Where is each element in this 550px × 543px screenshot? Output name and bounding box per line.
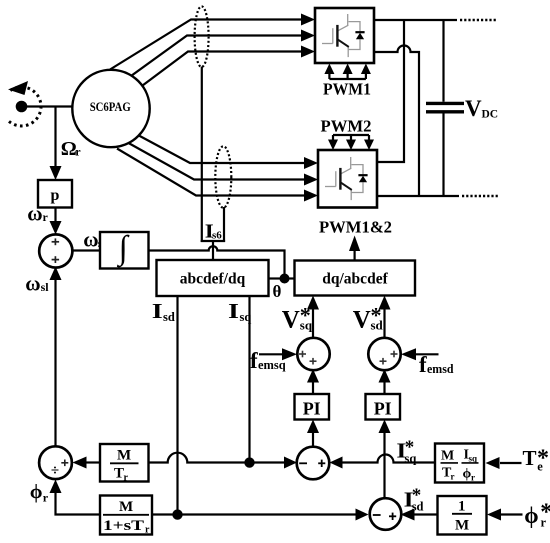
wire PI q to S2 [307, 369, 319, 394]
DC+ top rail [374, 19, 457, 21]
svg-text:SC6PAG: SC6PAG [90, 99, 131, 114]
wire phase C top set [135, 46, 316, 92]
Isq* reference wire with hop [330, 455, 436, 469]
Vsd* reference wire [379, 296, 391, 339]
wire phase C bottom set [117, 149, 318, 202]
svg-text:T: T [523, 446, 537, 470]
wire PI d to S3 [379, 369, 391, 394]
DC- rail dotted continuation [462, 195, 498, 198]
svg-text:PWM2: PWM2 [321, 117, 372, 136]
svg-text:ϕ: ϕ [30, 481, 43, 503]
Te* input [486, 457, 522, 469]
svg-text:I: I [152, 299, 163, 323]
wire theta to abcdef/dq [269, 277, 285, 279]
svg-text:1: 1 [458, 499, 466, 515]
wire S5 to PI d [379, 420, 391, 499]
Isd measured wire [176, 296, 178, 515]
svg-text:emsd: emsd [427, 361, 454, 376]
wire Isq to S4 and M/Tr with hop [149, 453, 250, 463]
svg-text:sl: sl [41, 280, 50, 294]
svg-text:θ: θ [273, 282, 282, 301]
DC link capacitor C [426, 20, 464, 196]
wire bottom converter positive to DC+ [377, 20, 404, 162]
wire dq/abcdef to PWM [349, 236, 360, 261]
wire phase B top set [124, 30, 315, 82]
svg-text:r: r [541, 516, 547, 530]
svg-text:r: r [43, 210, 49, 224]
flux to current block 1/M [438, 496, 487, 535]
svg-text:PWM1&2: PWM1&2 [319, 218, 392, 237]
svg-text:emsq: emsq [258, 357, 286, 372]
summing junction S4 q-axis current [297, 447, 330, 480]
svg-text:PI: PI [303, 399, 321, 419]
svg-text:DC: DC [482, 109, 499, 121]
svg-text:PWM1: PWM1 [323, 80, 371, 99]
PI controller d-axis [366, 394, 401, 420]
M/(1+sTr) block [100, 496, 152, 535]
top cable ellipse (dotted) [195, 6, 209, 67]
svg-text:M: M [441, 449, 454, 464]
Isq measured wire [248, 296, 250, 463]
svg-text:r: r [451, 472, 455, 482]
omega_r wire [50, 208, 62, 235]
svg-text:ω: ω [25, 271, 40, 295]
svg-text:r: r [43, 491, 49, 505]
wire theta to dq/abcdef [285, 277, 295, 279]
wire phase A bottom set [137, 135, 318, 170]
divider junction [39, 446, 72, 479]
svg-text:ω: ω [83, 227, 98, 251]
DC- bottom rail [377, 195, 459, 197]
svg-text:M: M [455, 518, 469, 534]
phi_r wire into divider [50, 480, 101, 515]
theta wire with hop over Is6 line [149, 246, 285, 278]
current sensor wire from bottom set [223, 207, 225, 242]
current sensor wire from top set [201, 67, 203, 243]
svg-text:ϕ: ϕ [524, 503, 538, 528]
svg-text:T: T [114, 466, 124, 482]
summing junction S5 d-axis current [370, 498, 402, 530]
svg-text:f: f [419, 352, 427, 377]
node Isq junction dot [244, 457, 254, 467]
PWM1 gating arrows [324, 64, 371, 80]
shaft end dot [16, 101, 28, 113]
svg-text:sq: sq [240, 310, 252, 324]
torque to current block M/Tr Isq/phir [435, 444, 484, 483]
svg-text:÷: ÷ [51, 463, 59, 479]
abcdef/dq transform block [157, 260, 269, 296]
svg-text:dq/abcdef: dq/abcdef [322, 271, 388, 288]
Vsq* reference wire [307, 296, 319, 339]
svg-text:sd: sd [371, 318, 384, 333]
rotation arrow [8, 81, 28, 95]
M/Tr block [100, 444, 149, 482]
wire M/Tr to divider [73, 457, 101, 469]
bottom cable ellipse (dotted) [215, 146, 231, 207]
wire phase A top set [110, 14, 315, 70]
node Isd junction dot [172, 509, 182, 519]
Is6 measured current wire into abcdef/dq [212, 241, 214, 260]
shaft wire [22, 105, 74, 107]
wire phase B bottom set [129, 143, 319, 186]
svg-text:V: V [282, 307, 300, 334]
svg-text:e: e [537, 460, 543, 474]
svg-text:I: I [228, 299, 239, 323]
summing junction S3 d-axis voltage [368, 338, 400, 370]
wire Isd to S5 [152, 513, 178, 515]
svg-text:V: V [465, 96, 482, 121]
PWM2 gating arrows [328, 135, 374, 150]
wire top converter negative with hop [374, 46, 419, 197]
bottom converter box U2 [318, 150, 377, 208]
svg-text:f: f [250, 348, 258, 373]
integrator block [100, 232, 149, 269]
svg-text:sq: sq [300, 318, 313, 333]
pole-pair block p [38, 180, 72, 208]
svg-text:sq: sq [469, 454, 478, 464]
node theta junction dot [280, 274, 290, 284]
bottom converter IGBT symbol [325, 157, 363, 200]
rotation arc (dotted) [9, 87, 41, 126]
phi_r* input [487, 509, 523, 521]
wire junction to S4 [250, 457, 298, 469]
f_emsq feedforward input [259, 348, 297, 360]
machine SC6PAG circle [72, 70, 149, 147]
dq/abcdef transform block [295, 261, 416, 296]
wire 1/M to S5 [401, 509, 438, 521]
svg-text:M: M [119, 499, 133, 515]
wire S1 to integrator [72, 249, 101, 251]
summing junction S2 q-axis voltage [297, 338, 329, 370]
svg-text:V: V [353, 307, 371, 334]
svg-text:ω: ω [27, 202, 42, 226]
PI controller q-axis [295, 394, 330, 420]
svg-text:r: r [75, 144, 81, 158]
svg-text:M: M [117, 448, 131, 464]
svg-text:r: r [471, 473, 475, 483]
svg-text:s6: s6 [212, 230, 222, 242]
svg-text:PI: PI [374, 399, 392, 419]
svg-text:r: r [124, 473, 129, 484]
f_emsd feedforward input [401, 348, 439, 360]
Omega_r shaft speed wire [50, 107, 62, 181]
svg-text:abcdef/dq: abcdef/dq [180, 271, 246, 288]
svg-text:sd: sd [163, 310, 175, 324]
svg-text:p: p [51, 187, 60, 204]
svg-text:∫: ∫ [117, 230, 130, 268]
svg-text:sq: sq [405, 452, 417, 466]
top converter IGBT symbol [322, 14, 360, 57]
DC+ rail dotted continuation [460, 19, 497, 22]
Is6 sensor bracket [201, 240, 225, 242]
svg-text:1+sT: 1+sT [103, 518, 144, 534]
summing junction S1 [39, 234, 72, 267]
omega_sl wire divider to S1 [50, 267, 62, 447]
top converter box U1 [315, 8, 374, 63]
wire S4 to PI q [307, 420, 319, 448]
svg-text:r: r [145, 525, 150, 536]
